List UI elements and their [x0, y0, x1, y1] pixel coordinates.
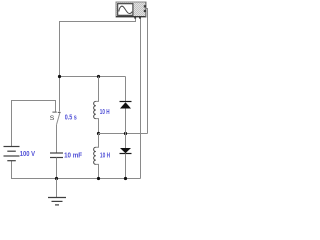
- wire: inductor L1 bottom lead: [96, 119, 99, 134]
- oscilloscope bottom pin A: [134, 17, 136, 19]
- wire: battery top to switch row: [12, 101, 56, 147]
- inductor L2 10 H: [94, 147, 96, 164]
- node E (ground junction): [55, 177, 58, 180]
- wire: diode D2 bottom lead: [125, 154, 127, 179]
- wire: inductor L2 bottom lead: [96, 164, 99, 178]
- svg-text:10 H: 10 H: [100, 109, 110, 116]
- wire: node A up and over to scope pin A: [60, 18, 136, 77]
- oscilloscope U1 body: [116, 2, 146, 17]
- ground rail wire: [57, 178, 141, 180]
- svg-text:10 mF: 10 mF: [64, 152, 83, 159]
- oscilloscope bottom pin B: [139, 17, 141, 19]
- node D (diode midpoint): [124, 132, 127, 135]
- oscilloscope right-edge terminal 2: [144, 10, 146, 12]
- battery V1 100 V: [4, 147, 20, 161]
- wire: row node A to diode branch top: [60, 76, 126, 78]
- wire: scope right terminal down to middle row: [146, 9, 148, 134]
- oscilloscope right shadow edge: [145, 2, 147, 17]
- wire: battery bottom to ground rail: [12, 161, 57, 179]
- wire: inductor L2 top lead: [96, 134, 99, 148]
- wire: switch common to capacitor: [56, 125, 58, 154]
- capacitor C1 10 mF: [50, 153, 63, 158]
- oscilloscope right-edge terminal 1: [144, 5, 146, 7]
- svg-text:10 H: 10 H: [100, 153, 110, 160]
- diode D1 (cathode bar): [120, 101, 132, 103]
- svg-text:S: S: [50, 115, 55, 122]
- oscilloscope bottom shadow edge: [116, 16, 146, 18]
- switch S: right contact (from junction node A down): [59, 77, 61, 112]
- wire: diode D2 top lead: [125, 134, 127, 149]
- switch S: blade: [57, 113, 60, 124]
- node F (L2 bottom junction): [97, 177, 100, 180]
- diode D2 (triangle, pointing down): [120, 148, 131, 153]
- wire: inductor L1 top lead: [96, 77, 99, 102]
- wire: capacitor to ground rail: [56, 158, 58, 179]
- oscilloscope screen: [118, 4, 133, 16]
- node G (D2 bottom junction): [124, 177, 127, 180]
- wire: diode D1 bottom lead: [125, 109, 127, 134]
- node A: [58, 75, 61, 78]
- switch S: left contact: [55, 101, 57, 112]
- node B (inductor top junction): [97, 75, 100, 78]
- wire: middle row from node C to scope wire corner: [99, 133, 148, 135]
- svg-text:100 V: 100 V: [20, 151, 36, 158]
- diode D1 (triangle, pointing up): [120, 102, 131, 108]
- svg-text:0.5 s: 0.5 s: [65, 115, 77, 122]
- wire: diode D1 top lead: [125, 77, 127, 102]
- inductor L1 10 H: [94, 101, 96, 118]
- ground symbol: [56, 179, 58, 198]
- wire: scope pin B down right side to rail: [140, 18, 142, 179]
- diode D2 (cathode bar): [120, 153, 132, 155]
- node C (between inductors): [97, 132, 100, 135]
- oscilloscope screen sine trace: [119, 6, 132, 13]
